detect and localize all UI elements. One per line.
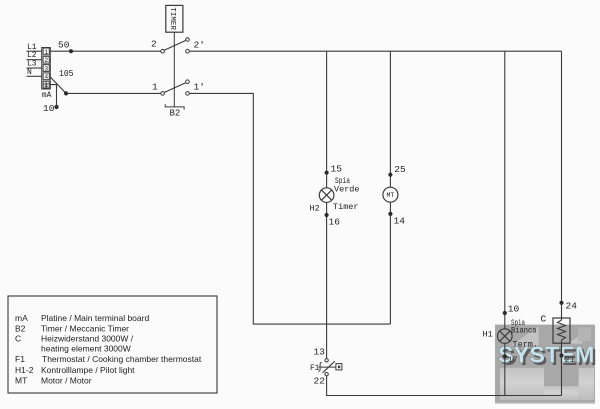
- svg-text:Timer / Meccanic Timer: Timer / Meccanic Timer: [41, 323, 129, 333]
- svg-text:MT: MT: [15, 376, 27, 386]
- svg-text:heating element 3000W: heating element 3000W: [41, 343, 131, 353]
- svg-text:TIMER: TIMER: [168, 7, 176, 30]
- svg-text:N: N: [27, 68, 32, 77]
- svg-text:2': 2': [194, 40, 205, 51]
- svg-text:10: 10: [43, 103, 55, 114]
- svg-text:16: 16: [329, 217, 341, 228]
- svg-text:1: 1: [152, 81, 158, 92]
- svg-text:25: 25: [394, 164, 406, 175]
- svg-text:B2: B2: [15, 323, 26, 333]
- svg-text:13: 13: [314, 347, 326, 358]
- svg-text:F1: F1: [310, 365, 320, 373]
- svg-text:Thermostat / Cooking chamber t: Thermostat / Cooking chamber thermostat: [42, 354, 202, 364]
- svg-text:1: 1: [44, 49, 48, 56]
- svg-text:Term.: Term.: [513, 340, 539, 350]
- svg-text:Timer: Timer: [333, 202, 359, 212]
- svg-text:24: 24: [566, 301, 578, 312]
- svg-text:15: 15: [331, 164, 343, 175]
- svg-text:22: 22: [314, 376, 326, 387]
- svg-text:Bianca: Bianca: [511, 326, 537, 336]
- svg-text:3: 3: [44, 65, 48, 72]
- svg-text:H2: H2: [310, 204, 320, 214]
- svg-text:Verde: Verde: [334, 185, 360, 195]
- svg-text:Kontrolllampe / Pilot light: Kontrolllampe / Pilot light: [41, 365, 135, 375]
- svg-text:50: 50: [58, 40, 70, 51]
- svg-text:2: 2: [151, 39, 157, 50]
- svg-text:4: 4: [44, 74, 48, 81]
- svg-text:1': 1': [194, 81, 205, 92]
- svg-text:21: 21: [565, 355, 575, 365]
- svg-text:mA: mA: [42, 91, 52, 100]
- svg-text:B2: B2: [170, 108, 181, 118]
- svg-text:2: 2: [44, 57, 48, 64]
- svg-text:14: 14: [394, 216, 406, 227]
- svg-text:17: 17: [508, 355, 518, 365]
- svg-text:C: C: [15, 333, 21, 343]
- svg-text:105: 105: [59, 68, 74, 79]
- svg-text:H1: H1: [483, 330, 493, 340]
- svg-text:10: 10: [508, 304, 520, 315]
- svg-text:MT: MT: [386, 192, 394, 199]
- svg-text:H1-2: H1-2: [15, 365, 34, 375]
- svg-text:Motor / Motor: Motor / Motor: [41, 376, 92, 386]
- svg-text:F1: F1: [15, 354, 25, 364]
- svg-text:C: C: [541, 314, 547, 325]
- svg-text:Platine / Main terminal board: Platine / Main terminal board: [41, 313, 149, 323]
- svg-text:Heizwiderstand 3000W /: Heizwiderstand 3000W /: [41, 333, 134, 343]
- svg-text:mA: mA: [15, 313, 28, 323]
